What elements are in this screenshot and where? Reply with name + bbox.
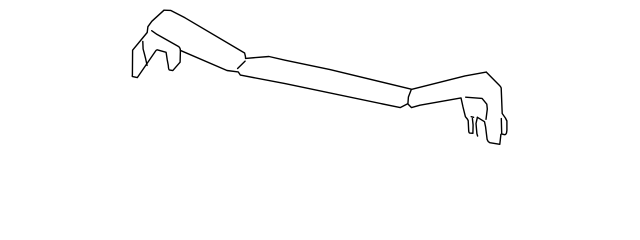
bar top edge: shallow section with V dip then rise to right apex (246, 57, 487, 90)
bar bottom edge: steep section, shallow run, zigzag notch, rise to right bracket, left foot of right bracket (181, 51, 473, 134)
left bracket crease (fold line) (152, 31, 181, 51)
auto part line drawing: upper tie bar / bumper bracket (0, 0, 640, 157)
left bend Z-step diagonal (238, 61, 246, 68)
left bracket apex top + long top edge of upper bar (164, 10, 246, 58)
right bracket interior fold line (466, 97, 488, 119)
left bracket outer outline (132, 10, 180, 77)
right bracket tent left edge (476, 117, 478, 136)
left bracket inner finger line (143, 41, 147, 65)
right bend Z-step crease (408, 90, 411, 104)
right bracket outer right edge and right foot (486, 72, 507, 135)
right bracket small dash between feet (471, 116, 473, 119)
right bracket tent right edge continuing into big bottom foot (477, 117, 501, 144)
